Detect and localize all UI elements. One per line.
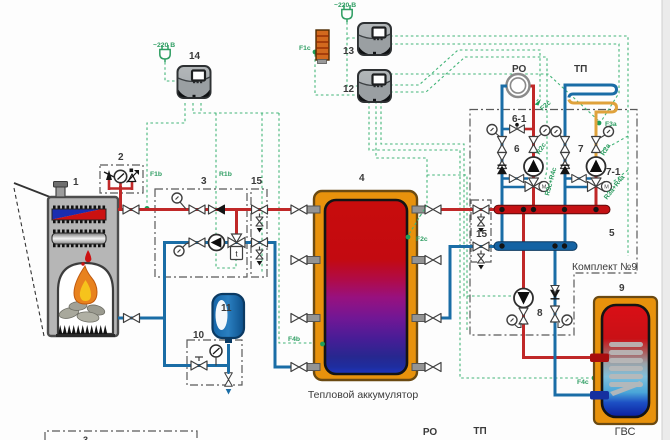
boiler 1 heat exchanger middle (grey)	[52, 230, 106, 248]
svg-text:14: 14	[189, 51, 201, 62]
valve under pump 8	[519, 308, 528, 324]
wire plug to controller 14	[165, 62, 178, 81]
wire boiler return	[118, 317, 165, 320]
blue manifold	[494, 242, 577, 251]
radiator circle PO	[507, 74, 530, 97]
thermometer DHW line	[562, 315, 572, 325]
svg-text:9: 9	[619, 283, 625, 294]
thermometer on pump line	[174, 246, 184, 256]
wire parallel run	[427, 175, 467, 330]
wire bus under 14	[193, 112, 279, 114]
tank 4 ports right	[412, 206, 426, 371]
sensor F3a dot	[597, 121, 602, 126]
boiler 1 spark drops	[85, 250, 91, 262]
svg-text:6: 6	[514, 144, 520, 155]
controller 14	[178, 66, 211, 98]
valve group 6 red column	[529, 137, 538, 153]
boiler 1 grate	[58, 325, 108, 335]
svg-text:2: 2	[118, 152, 124, 163]
wire tank to blue manifold	[438, 247, 496, 319]
svg-text:6-1: 6-1	[512, 114, 527, 125]
thermometer pump 8	[507, 315, 517, 325]
thermometer group 6 right	[540, 126, 550, 136]
tank 9 blue port	[590, 391, 609, 400]
check valve DHW line	[550, 290, 560, 299]
green sensor/control wires	[147, 22, 628, 378]
power plug left	[160, 45, 170, 62]
sensor F1b dot	[145, 206, 150, 211]
tank 4 ports left	[306, 206, 320, 371]
tank 9 coil	[609, 342, 643, 396]
wire 12 to sensor F3a	[390, 74, 600, 122]
wire pump line to tank	[165, 243, 294, 368]
wire group 7 supply drop	[595, 160, 598, 207]
air vent valve (group 2)	[127, 169, 140, 183]
flue sensor F1c brick stack	[316, 30, 329, 64]
check valve group 6	[497, 165, 507, 174]
svg-text:Комплект №9: Комплект №9	[572, 262, 637, 273]
svg-text:10: 10	[193, 330, 205, 341]
green sensor labels	[150, 2, 627, 386]
pressure gauge (group 2)	[114, 170, 126, 182]
safety group 2 manifold	[109, 178, 132, 190]
valve with drain box 15 return	[252, 238, 268, 247]
svg-text:РО: РО	[423, 427, 438, 438]
group 7 blue column and TP coil	[565, 85, 617, 244]
page edge band right	[662, 0, 670, 440]
check valve group 7	[560, 165, 570, 174]
pressure gauge in box 10	[210, 345, 222, 357]
wire 12 to valve M group 6	[390, 57, 547, 179]
boiler 1 heat exchanger top (blue-red)	[52, 206, 106, 224]
boiler 1 flame	[74, 266, 97, 304]
TP coil orange return	[569, 100, 617, 163]
wire 12 to sensor F4c	[369, 101, 591, 378]
svg-text:15: 15	[251, 176, 263, 187]
svg-text:4: 4	[359, 173, 365, 184]
pump 7	[587, 157, 606, 176]
svg-text:F1b: F1b	[150, 171, 162, 178]
sensor F1c dot	[313, 50, 318, 55]
svg-text:РО: РО	[512, 64, 527, 75]
wire 14 down	[200, 103, 202, 113]
valves group 7 blue column	[561, 137, 570, 153]
svg-text:13: 13	[343, 46, 355, 57]
svg-text:ГВС: ГВС	[615, 426, 636, 438]
power plug right	[342, 5, 352, 22]
box 3 pump group	[155, 189, 247, 277]
wire to box 15 valves	[261, 113, 263, 272]
sensor F4c dot	[592, 376, 597, 381]
wire F1c to controller 12	[315, 54, 358, 95]
svg-text:3: 3	[83, 435, 88, 440]
svg-text:5: 5	[609, 228, 615, 239]
wire expansion line	[165, 364, 229, 367]
bridge valve group 7	[572, 174, 586, 182]
thermometer on supply	[172, 193, 182, 203]
thermometer group 6 left	[487, 125, 497, 135]
wire to valve R2a	[603, 136, 628, 150]
mixing valve R1b with thermostat t	[228, 234, 245, 260]
sensor F2c tank dot	[405, 235, 410, 240]
wire to valve M group 7	[609, 170, 628, 185]
wire 14 down	[192, 103, 194, 113]
pump in box 3	[209, 235, 225, 251]
svg-text:15: 15	[476, 229, 488, 240]
wire 12 to sensor F2c supply	[390, 50, 540, 102]
svg-text:F4b: F4b	[288, 336, 300, 343]
make-up valve in box 10	[191, 361, 207, 370]
wire 13 to group 7 right	[390, 36, 628, 256]
valve on pump line	[189, 238, 205, 247]
wire 13 to valve R2a	[390, 44, 619, 120]
sensor F4b dot	[321, 342, 326, 347]
svg-text:3: 3	[201, 176, 207, 187]
thermometer group 7 left	[551, 127, 561, 137]
balancing valve 6-1	[510, 125, 525, 133]
controller 12	[358, 70, 391, 102]
box 15 right	[471, 200, 491, 262]
valve on boiler return	[124, 314, 140, 323]
boiler 1 chimney stub	[56, 186, 65, 197]
valve with drain before red manifold	[473, 205, 489, 214]
check valve in box 3 supply	[209, 205, 225, 214]
safety valve (group 2)	[104, 170, 114, 180]
component boxes (dash-dot)	[45, 110, 637, 440]
bridge valve group 6	[509, 174, 523, 182]
box Комплект №9	[470, 110, 637, 336]
valves group 6 blue column	[498, 137, 507, 153]
wire to mixing valve tee	[235, 210, 238, 238]
valve with drain before blue manifold	[473, 242, 489, 251]
wire 12 to pump 8	[381, 101, 512, 296]
drain arrow under expansion line	[225, 373, 233, 387]
thermal accumulator tank 4	[314, 191, 417, 380]
valve with drain box 15 supply	[252, 205, 268, 214]
boiler 1 logs	[58, 301, 106, 323]
valve DHW line	[551, 306, 560, 322]
svg-text:~220 В: ~220 В	[153, 42, 175, 49]
sensor F2c tank dot	[406, 235, 411, 240]
group 6 blue column	[502, 86, 507, 244]
legend box bottom left	[45, 431, 197, 440]
svg-text:ТП: ТП	[473, 426, 486, 437]
box 15 left	[251, 189, 267, 277]
sensor F2c supply arrow	[535, 99, 542, 106]
wire blue manifold to DHW tank 9	[555, 250, 592, 395]
wire 14 to sensor F1b	[147, 103, 185, 204]
wire group 6 radiator loop supply	[529, 86, 534, 207]
thermometer group 7 right	[604, 127, 614, 137]
wire F4b to tank	[279, 113, 320, 343]
svg-text:R1b: R1b	[219, 171, 232, 178]
group 6 bridge	[502, 128, 513, 131]
boiler 1 body	[48, 197, 118, 336]
sensor F4b dot	[320, 342, 325, 347]
boiler 1 firebox arch	[58, 263, 113, 334]
wire 12 to sensor F2c tank	[376, 101, 427, 235]
svg-text:F4c: F4c	[577, 379, 589, 386]
svg-text:ТП: ТП	[574, 64, 587, 75]
group 6 bottom bridge	[502, 179, 528, 188]
svg-text:7: 7	[578, 144, 584, 155]
svg-text:8: 8	[537, 308, 543, 319]
svg-text:Тепловой аккумулятор: Тепловой аккумулятор	[308, 389, 418, 401]
wire plug to controllers 13 and 12	[347, 22, 359, 86]
wire red manifold to DHW tank 9	[524, 212, 593, 358]
wire F2c over tank border	[409, 205, 428, 235]
svg-text:1: 1	[73, 177, 79, 188]
svg-text:F1c: F1c	[299, 45, 311, 52]
boiler 1 dashed wall line	[14, 188, 44, 336]
sensor dots	[145, 50, 602, 381]
valve on boiler supply	[123, 205, 139, 214]
controller 13	[358, 23, 391, 55]
wire expansion tank stem	[227, 344, 230, 372]
svg-text:11: 11	[221, 303, 232, 314]
pump 8	[514, 289, 533, 308]
red manifold 5	[494, 205, 610, 213]
tank 4 port valves left	[291, 205, 307, 214]
valve group 7 orange column	[592, 137, 601, 153]
wire return riser	[163, 241, 166, 367]
svg-text:~220 В: ~220 В	[334, 2, 356, 9]
wire tank to red manifold	[440, 208, 496, 211]
svg-text:12: 12	[343, 84, 355, 95]
junction dots	[499, 207, 598, 249]
expansion tank 11	[213, 294, 245, 343]
pump 6	[524, 157, 543, 176]
box 2 safety group	[100, 165, 143, 193]
tank 4 port valves right	[425, 205, 441, 214]
valve in box 3 supply	[189, 205, 205, 214]
group 7 bottom bridge	[565, 179, 591, 188]
wire R1b to mixing valve	[216, 113, 236, 268]
boiler 1 flue line	[14, 183, 50, 197]
box 10 make-up unit	[187, 340, 242, 385]
wire safety group riser	[119, 186, 122, 210]
svg-text:F3a: F3a	[605, 121, 617, 128]
DHW boiler tank 9	[594, 297, 657, 424]
wire boiler supply to tank	[118, 208, 293, 211]
tank 9 red port	[590, 354, 609, 363]
mixing valve M group 7	[588, 178, 612, 192]
svg-text:F2c: F2c	[416, 236, 428, 243]
mixing valve M group 6	[525, 178, 549, 192]
